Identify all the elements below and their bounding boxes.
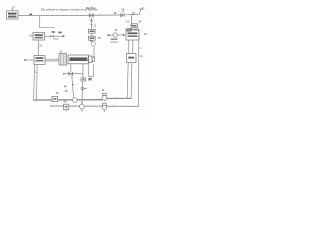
left pipes down from B4 — [34, 65, 38, 102]
wire G right with valve V3 — [45, 35, 51, 37]
wire V4 to node J1 — [73, 73, 83, 75]
pump P3 circle on line2 — [80, 104, 85, 109]
right riser V-right — [138, 28, 140, 106]
heat exchanger label 36 — [114, 28, 117, 32]
arrow into V4 — [63, 73, 68, 75]
vertical chain from V1 — [90, 17, 92, 29]
compressor CL2 cap and circle on line2 — [102, 103, 107, 110]
wire V3 to arrow — [54, 35, 63, 37]
U bracket under W — [89, 64, 94, 76]
valve V4 bowtie — [69, 72, 73, 76]
well pipes down — [127, 63, 132, 99]
wire L1 end segment — [124, 13, 139, 15]
box W attachment 2 — [92, 57, 95, 62]
wire line1 right segment — [106, 97, 131, 99]
svg-text:Вн.Газ: Вн.Газ — [86, 6, 96, 10]
node 16 on L1 — [29, 14, 32, 16]
compressor cluster CL circle — [102, 93, 107, 100]
label 42 — [64, 86, 66, 88]
faint text under gasgen line — [53, 38, 59, 39]
pump P1 circle on line1 — [73, 98, 78, 103]
tail below F3 — [104, 110, 106, 112]
column K hatched box — [59, 54, 67, 66]
valve V3 bowtie — [50, 35, 54, 38]
label under B2 — [90, 41, 93, 42]
label 28 — [121, 8, 125, 14]
vent Y symbol — [139, 7, 145, 15]
arrowhead flow — [63, 35, 66, 38]
box W wellhead unit — [68, 55, 89, 64]
valve V1 bowtie on L1 — [89, 13, 93, 17]
box B4 pump unit — [34, 56, 45, 65]
junction tick line2 — [112, 105, 114, 106]
wire L1 main supply line — [18, 14, 89, 16]
actuator circle on B — [81, 87, 87, 90]
wire W to valve V4 — [70, 64, 72, 72]
corner outer pipe — [126, 96, 129, 98]
valve V2 small on chain — [90, 20, 93, 22]
wire line2 — [50, 105, 139, 107]
wire C1 down to train — [93, 46, 95, 57]
node 26 blob — [114, 12, 116, 14]
box G gas generator — [33, 33, 45, 41]
label 11 texts — [52, 31, 62, 33]
text under B3 — [126, 28, 138, 31]
pump P2 circle — [113, 33, 117, 37]
text under P2 — [110, 38, 118, 42]
wire G down — [37, 40, 39, 56]
arrow into B4 — [24, 59, 34, 61]
wire B1 to B2 — [91, 33, 93, 36]
tail below P3 — [81, 109, 83, 111]
box B1 — [89, 29, 96, 33]
box W attachment 1 — [89, 56, 93, 63]
box N1 nitrogen source — [7, 11, 19, 19]
wire L1 continuation — [93, 14, 120, 16]
tick label on riser — [139, 47, 142, 49]
pipe B4 to column (multiline) — [45, 59, 59, 61]
wire into pump P2 — [108, 34, 113, 36]
check valve CV1 — [120, 13, 124, 17]
label 16 arrow on L1 drop — [40, 15, 55, 27]
gauge C1 circle — [91, 42, 95, 46]
box B3 — [131, 24, 138, 28]
svg-text:30: 30 — [132, 11, 136, 15]
box HX heat exchanger — [126, 30, 139, 40]
box component on B — [81, 78, 86, 81]
box F2 on line2 — [64, 104, 69, 109]
label 10 — [11, 5, 15, 10]
box F1 on line1 — [52, 96, 58, 101]
box SEP separator — [127, 54, 137, 63]
wire P2 to HX with arrow — [117, 34, 125, 36]
blob under U — [88, 78, 91, 81]
wire B continues — [81, 81, 84, 104]
svg-text:10: 10 — [11, 5, 15, 9]
wire branch down to B3 — [130, 15, 133, 26]
junction tick — [116, 97, 118, 98]
wire vertical A down to P1 — [72, 76, 74, 98]
box B2 — [89, 36, 96, 40]
arrowhead down on A — [72, 84, 74, 87]
node blob — [107, 34, 109, 36]
arrowhead down on B — [81, 102, 83, 104]
wires HX to SEP — [129, 40, 133, 54]
wire line1 bottom left — [34, 99, 102, 101]
wire vertical B from W — [82, 64, 84, 78]
node mark on chain — [91, 24, 93, 26]
tail below F2 — [65, 109, 67, 111]
